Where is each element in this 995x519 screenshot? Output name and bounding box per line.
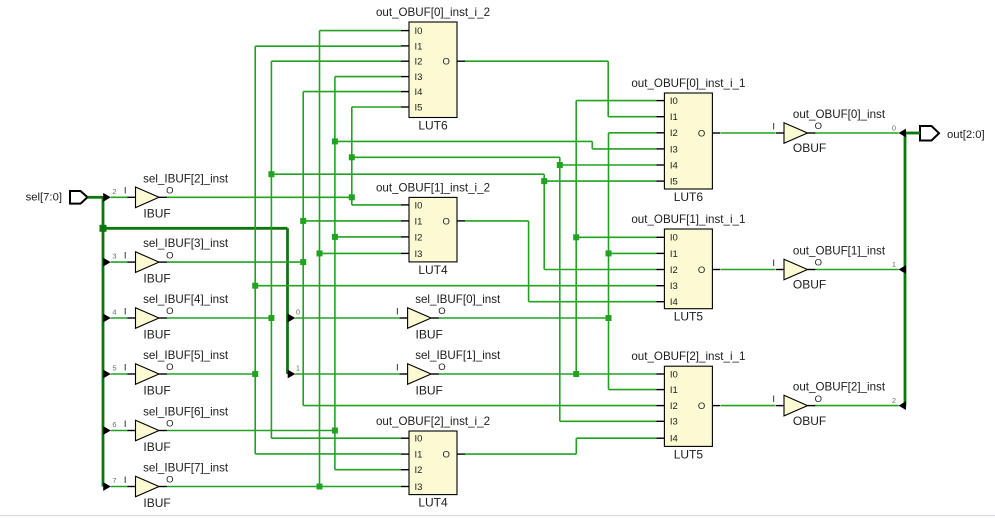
junction (268, 315, 274, 321)
input port sel[7:0] (26, 191, 88, 204)
svg-text:sel_IBUF[1]_inst: sel_IBUF[1]_inst (415, 349, 501, 362)
svg-text:I: I (124, 419, 127, 430)
wire h (721, 405, 776, 407)
wire h (439, 373, 657, 375)
svg-text:I: I (124, 306, 127, 317)
net LUT4a.O to LUT5a.I4 (465, 221, 656, 302)
wire v (575, 101, 577, 374)
junction (317, 250, 323, 256)
svg-text:O: O (443, 57, 450, 68)
svg-text:I0: I0 (670, 369, 678, 380)
svg-text:LUT5: LUT5 (674, 310, 704, 324)
LUT5 out_OBUF[2]_inst_i_1 (631, 350, 745, 461)
bus rip arrow + bit 5 to sel_IBUF[5] (103, 364, 116, 379)
svg-text:LUT4: LUT4 (418, 263, 448, 277)
wire v (591, 141, 593, 149)
svg-text:sel_IBUF[7]_inst: sel_IBUF[7]_inst (143, 462, 229, 475)
svg-text:IBUF: IBUF (143, 496, 170, 510)
wire h (167, 486, 402, 488)
svg-text:I1: I1 (670, 385, 678, 396)
wire h (320, 30, 402, 32)
svg-text:sel_IBUF[0]_inst: sel_IBUF[0]_inst (415, 293, 501, 306)
wire h (167, 196, 352, 198)
junction (268, 171, 274, 177)
buffer out_OBUF[1]_inst (OBUF) (772, 244, 885, 291)
wire h (255, 285, 656, 287)
junction (606, 315, 612, 321)
wire h (608, 116, 656, 118)
wire h (609, 132, 657, 134)
net LUT6a.O to LUT6b.I1 (465, 61, 656, 116)
bus rip arrow + bit 1 to sel_IBUF[1] (288, 364, 300, 379)
wire h (352, 156, 560, 158)
svg-text:I: I (124, 362, 127, 373)
bus rip arrow + bit 0 from out_OBUF[0] (892, 123, 906, 137)
svg-text:I5: I5 (415, 102, 423, 113)
wire h (609, 252, 657, 254)
wire h (576, 236, 656, 238)
wire h (111, 373, 128, 375)
svg-text:IBUF: IBUF (416, 383, 443, 397)
svg-text:I3: I3 (415, 482, 423, 493)
wire h (255, 453, 401, 455)
svg-text:0: 0 (296, 308, 300, 317)
net sel_IBUF[5] : IBUF[5].O to LUT6a.I1, LUT5a.I3, LUT4b.I1 (167, 46, 657, 454)
wire h (303, 91, 401, 93)
svg-text:I2: I2 (670, 401, 678, 412)
svg-text:I1: I1 (670, 249, 678, 260)
bus junction at sel trunk split (100, 225, 107, 232)
buffer sel_IBUF[6]_inst (IBUF) (124, 406, 229, 454)
wire h (303, 405, 656, 407)
svg-text:sel[7:0]: sel[7:0] (26, 192, 62, 204)
buffer sel_IBUF[4]_inst (IBUF) (124, 293, 229, 341)
svg-text:I2: I2 (670, 128, 678, 139)
wire h (815, 405, 899, 407)
wire h (352, 106, 401, 108)
junction (332, 234, 338, 240)
svg-text:OBUF: OBUF (793, 414, 826, 428)
svg-text:O: O (698, 128, 705, 139)
svg-text:O: O (166, 306, 173, 317)
net LUT4b.O to LUT5b.I4 (465, 438, 656, 454)
wire v (254, 46, 256, 454)
svg-text:O: O (698, 265, 705, 276)
svg-text:O: O (166, 475, 173, 486)
svg-text:6: 6 (112, 420, 116, 429)
svg-text:I3: I3 (670, 417, 678, 428)
wire h (815, 132, 899, 134)
svg-text:O: O (443, 450, 450, 461)
svg-text:O: O (166, 419, 173, 430)
junction (252, 283, 258, 289)
LUT4 out_OBUF[2]_inst_i_2 (376, 415, 490, 510)
LUT5 out_OBUF[1]_inst_i_1 (631, 213, 745, 324)
wire v (543, 174, 545, 269)
wire h (303, 220, 401, 222)
junction (332, 428, 338, 434)
svg-text:I1: I1 (415, 41, 423, 52)
LUT4 out_OBUF[1]_inst_i_2 (376, 181, 490, 277)
svg-text:I0: I0 (670, 233, 678, 244)
net sel_IBUF[1] : IBUF[1].O to LUT6b.I0, LUT5a.I0, LUT5b.I0 (439, 101, 657, 377)
junction (573, 371, 579, 377)
wire v (528, 221, 530, 302)
svg-text:IBUF: IBUF (416, 327, 443, 341)
wire h (320, 252, 402, 254)
svg-text:out_OBUF[2]_inst_i_2: out_OBUF[2]_inst_i_2 (376, 415, 490, 428)
svg-text:O: O (443, 216, 450, 227)
bus rip arrow + bit 1 from out_OBUF[1] (892, 260, 906, 274)
wire h (167, 430, 335, 432)
wire h (465, 453, 576, 455)
bus rip arrow + bit 0 to sel_IBUF[0] (288, 308, 300, 323)
wire h (335, 140, 592, 142)
svg-text:OBUF: OBUF (793, 278, 826, 292)
svg-text:O: O (815, 394, 822, 405)
net sel_IBUF[0] : IBUF[0].O to LUT6b.I2, LUT5a.I1, LUT5b.I1 (439, 133, 657, 390)
buffer sel_IBUF[3]_inst (IBUF) (124, 237, 229, 285)
wire h (167, 373, 256, 375)
junction (317, 484, 323, 490)
wire v (608, 133, 610, 390)
svg-text:I: I (772, 258, 775, 269)
svg-text:I0: I0 (415, 434, 423, 445)
svg-text:sel_IBUF[4]_inst: sel_IBUF[4]_inst (143, 293, 229, 306)
wire h (271, 60, 401, 62)
junction (300, 218, 306, 224)
svg-text:I: I (772, 121, 775, 132)
wire h (609, 389, 657, 391)
wire v (607, 61, 609, 116)
svg-text:I4: I4 (670, 297, 678, 308)
svg-text:2: 2 (112, 187, 116, 196)
svg-text:LUT4: LUT4 (418, 496, 448, 510)
LUT6 out_OBUF[0]_inst_i_1 (631, 77, 745, 204)
canvas bottom border (0, 515, 995, 517)
junction (252, 371, 258, 377)
svg-text:I5: I5 (670, 177, 678, 188)
wire v (351, 107, 353, 205)
wire h (111, 196, 128, 198)
svg-text:I1: I1 (670, 112, 678, 123)
bus rip arrow + bit 7 to sel_IBUF[7] (103, 476, 116, 491)
svg-text:O: O (166, 186, 173, 197)
output port out[2:0] (920, 126, 985, 141)
svg-text:5: 5 (112, 364, 116, 373)
wire h (271, 173, 544, 175)
svg-text:out_OBUF[0]_inst_i_2: out_OBUF[0]_inst_i_2 (376, 6, 490, 19)
wire h (529, 301, 657, 303)
wire v (302, 92, 304, 406)
svg-text:OBUF: OBUF (793, 141, 826, 155)
svg-text:O: O (698, 401, 705, 412)
wire h (335, 76, 401, 78)
bus sel[7:0] trunk (88, 196, 288, 487)
wire h (439, 317, 609, 319)
svg-text:I3: I3 (415, 249, 423, 260)
junction (606, 250, 612, 256)
wire h (335, 469, 401, 471)
wire v (270, 61, 272, 438)
buffer sel_IBUF[5]_inst (IBUF) (124, 349, 229, 397)
wire h (295, 373, 399, 375)
svg-text:LUT6: LUT6 (674, 190, 704, 204)
svg-text:I3: I3 (670, 281, 678, 292)
wire h (576, 437, 656, 439)
svg-text:I0: I0 (670, 96, 678, 107)
svg-text:I: I (396, 362, 399, 373)
svg-text:out_OBUF[0]_inst: out_OBUF[0]_inst (793, 108, 886, 121)
svg-text:sel_IBUF[6]_inst: sel_IBUF[6]_inst (143, 406, 229, 419)
wire h (271, 437, 401, 439)
wire h (352, 204, 401, 206)
wire h (111, 430, 128, 432)
svg-text:I: I (772, 394, 775, 405)
svg-text:I1: I1 (415, 450, 423, 461)
wire h (560, 164, 657, 166)
wire h (167, 317, 272, 319)
buffer sel_IBUF[1]_inst (IBUF) (396, 349, 501, 397)
svg-text:I1: I1 (415, 216, 423, 227)
wire h (560, 420, 657, 422)
wire h (167, 261, 304, 263)
svg-text:I: I (124, 186, 127, 197)
buffer sel_IBUF[7]_inst (IBUF) (124, 462, 229, 510)
wire h (465, 60, 608, 62)
svg-text:3: 3 (112, 252, 116, 261)
svg-text:out_OBUF[0]_inst_i_1: out_OBUF[0]_inst_i_1 (631, 77, 745, 90)
wire h (255, 45, 401, 47)
wire h (544, 180, 656, 182)
svg-text:4: 4 (112, 308, 116, 317)
svg-text:I2: I2 (415, 232, 423, 243)
svg-text:I4: I4 (670, 160, 678, 171)
net sel_IBUF[6] : IBUF[6].O to LUT6a.I3, LUT6b.I3, LUT4a.I2, LUT4b.I2 (167, 77, 657, 470)
net sel_IBUF[3] : IBUF[3].O to LUT6a.I4, LUT4a.I1, LUT5b.I2 (167, 92, 657, 406)
svg-text:O: O (438, 362, 445, 373)
net sel_IBUF[7] : IBUF[7].O to LUT6a.I0, LUT4a.I3, LUT4b.I3 (167, 31, 402, 490)
svg-text:7: 7 (112, 476, 116, 485)
wire h (295, 317, 399, 319)
svg-text:I2: I2 (415, 57, 423, 68)
svg-text:out_OBUF[1]_inst_i_2: out_OBUF[1]_inst_i_2 (376, 181, 490, 194)
wire h (111, 486, 128, 488)
net sel_IBUF[4] : IBUF[4].O to LUT6a.I2, LUT6b.I5, LUT5a.I2, LUT4b.I0 (167, 61, 657, 438)
svg-text:IBUF: IBUF (143, 383, 170, 397)
svg-text:I0: I0 (415, 26, 423, 37)
net sel_IBUF[2] : IBUF[2].O to LUT6a.I5, LUT6b.I4, LUT4a.I0, LUT5b.I3 (167, 107, 657, 421)
junction (332, 138, 338, 144)
svg-text:I: I (396, 306, 399, 317)
svg-text:I: I (124, 251, 127, 262)
wire v (334, 77, 336, 470)
junction (349, 194, 355, 200)
bus rip arrow + bit 2 from out_OBUF[2] (892, 396, 906, 410)
wire h (592, 148, 656, 150)
wire v (575, 438, 577, 454)
LUT6 out_OBUF[0]_inst_i_2 (376, 6, 490, 133)
bus out[2:0] trunk (905, 133, 920, 406)
wire h (721, 132, 776, 134)
svg-text:0: 0 (892, 123, 896, 132)
svg-text:out_OBUF[1]_inst_i_1: out_OBUF[1]_inst_i_1 (631, 213, 745, 226)
wire h (111, 317, 128, 319)
buffer sel_IBUF[0]_inst (IBUF) (396, 293, 501, 341)
wire h (576, 100, 656, 102)
bus rip arrow + bit 4 to sel_IBUF[4] (103, 308, 116, 323)
wire h (111, 261, 128, 263)
wire h (544, 269, 656, 271)
svg-text:IBUF: IBUF (143, 440, 170, 454)
svg-text:IBUF: IBUF (143, 272, 170, 286)
wire h (815, 269, 899, 271)
svg-text:I0: I0 (415, 200, 423, 211)
svg-text:out_OBUF[1]_inst: out_OBUF[1]_inst (793, 244, 886, 257)
junction (300, 259, 306, 265)
svg-text:I2: I2 (670, 265, 678, 276)
svg-text:out[2:0]: out[2:0] (947, 129, 985, 141)
junction (557, 162, 563, 168)
svg-text:O: O (166, 250, 173, 261)
svg-text:1: 1 (296, 364, 300, 373)
bus rip arrow + bit 6 to sel_IBUF[6] (103, 420, 116, 435)
svg-text:I2: I2 (415, 465, 423, 476)
svg-text:LUT6: LUT6 (418, 119, 448, 133)
buffer out_OBUF[2]_inst (OBUF) (772, 380, 885, 427)
wire h (721, 269, 776, 271)
svg-text:I4: I4 (670, 434, 678, 445)
wire v (319, 31, 321, 487)
svg-text:I3: I3 (415, 72, 423, 83)
svg-text:I: I (124, 475, 127, 486)
svg-text:O: O (815, 121, 822, 132)
svg-text:sel_IBUF[5]_inst: sel_IBUF[5]_inst (143, 349, 229, 362)
wire v (559, 157, 561, 421)
bus rip arrow + bit 3 to sel_IBUF[3] (103, 252, 116, 267)
svg-text:out_OBUF[2]_inst_i_1: out_OBUF[2]_inst_i_1 (631, 350, 745, 363)
buffer out_OBUF[0]_inst (OBUF) (772, 108, 885, 155)
svg-text:O: O (815, 258, 822, 269)
svg-text:sel_IBUF[2]_inst: sel_IBUF[2]_inst (143, 172, 229, 185)
wire h (335, 236, 401, 238)
svg-text:1: 1 (892, 260, 896, 269)
svg-text:I4: I4 (415, 87, 423, 98)
svg-text:2: 2 (892, 396, 896, 405)
svg-text:I3: I3 (670, 144, 678, 155)
bus rip arrow + bit 2 to sel_IBUF[2] (103, 187, 116, 202)
wire h (465, 220, 529, 222)
svg-text:IBUF: IBUF (143, 327, 170, 341)
svg-text:O: O (166, 362, 173, 373)
junction (349, 154, 355, 160)
buffer sel_IBUF[2]_inst (IBUF) (124, 172, 229, 220)
svg-text:sel_IBUF[3]_inst: sel_IBUF[3]_inst (143, 237, 229, 250)
junction (573, 234, 579, 240)
svg-text:out_OBUF[2]_inst: out_OBUF[2]_inst (793, 380, 886, 393)
svg-text:LUT5: LUT5 (674, 447, 704, 461)
junction (541, 178, 547, 184)
svg-text:IBUF: IBUF (143, 207, 170, 221)
svg-text:O: O (438, 306, 445, 317)
